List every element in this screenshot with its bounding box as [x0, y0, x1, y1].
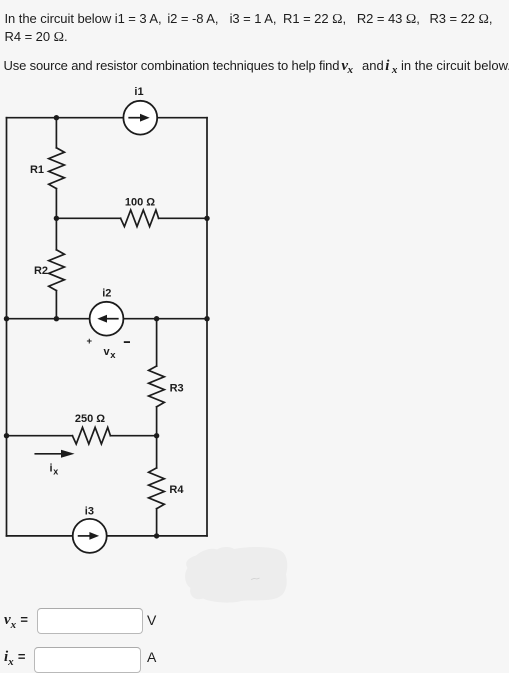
wire R2 bottom lead	[55, 291, 57, 319]
input box vx	[37, 608, 143, 634]
resistor R4	[149, 468, 165, 509]
wire R1-R2 middle	[55, 189, 57, 250]
svg-text:R3: R3	[170, 382, 184, 394]
smudge blob	[185, 547, 287, 603]
node R4 bottom	[154, 533, 159, 538]
node R2 bottom	[54, 316, 59, 321]
svg-text:R1: R1	[30, 164, 44, 176]
wire bottom-left segment	[7, 535, 73, 537]
i3 arrowhead	[89, 532, 99, 540]
svg-text:R2: R2	[34, 265, 48, 277]
node i2 row right edge	[204, 316, 209, 321]
unit A	[147, 649, 156, 665]
node R3 top	[154, 316, 159, 321]
wire R3 top lead	[156, 319, 158, 366]
wire R3-R4 middle	[156, 407, 158, 468]
node 100ohm row right	[204, 216, 209, 221]
i1 arrow	[129, 117, 141, 119]
input box ix	[34, 647, 141, 673]
wire right edge	[206, 118, 208, 536]
answer row ix	[4, 648, 25, 668]
svg-text:x: x	[53, 466, 58, 476]
unit V	[147, 612, 156, 628]
node top of R1 branch	[54, 115, 59, 120]
wire i2 row left	[7, 318, 90, 320]
svg-text:250 Ω: 250 Ω	[75, 413, 105, 425]
i3 arrow	[79, 535, 91, 537]
wire left edge	[6, 118, 8, 536]
node 250ohm row left edge	[4, 433, 9, 438]
wire R4 bottom lead	[156, 509, 158, 536]
answer row vx	[4, 611, 28, 631]
wire bottom-right segment	[107, 535, 207, 537]
svg-text:i3: i3	[85, 506, 94, 518]
wire top-right segment	[157, 117, 207, 119]
i2 arrow	[106, 318, 118, 320]
label minus of vx	[124, 341, 130, 343]
smudge scribble	[251, 578, 260, 580]
resistor 250ohm	[72, 427, 110, 444]
resistor 100ohm	[121, 210, 159, 227]
wire R1 top lead	[55, 118, 57, 148]
svg-text:i: i	[50, 462, 53, 474]
current source i1	[123, 101, 157, 135]
svg-text:i1: i1	[134, 86, 143, 98]
i1 arrowhead	[140, 114, 150, 122]
wire 100ohm row right	[159, 217, 207, 219]
current source i2	[90, 302, 124, 336]
wire 250ohm row left	[7, 435, 73, 437]
problem statement line 1 and 2	[5, 10, 493, 47]
problem statement line 3	[4, 58, 509, 75]
i2 arrowhead	[97, 315, 107, 323]
node 250ohm row right	[154, 433, 159, 438]
svg-text:100 Ω: 100 Ω	[125, 196, 155, 208]
wire 100ohm row left	[56, 217, 120, 219]
svg-text:i2: i2	[102, 288, 111, 300]
resistor R3	[149, 366, 165, 407]
wire 250ohm row right	[110, 435, 156, 437]
svg-text:R4: R4	[169, 484, 184, 496]
ix arrowhead	[61, 450, 75, 458]
wire top-left segment	[7, 117, 124, 119]
current source i3	[73, 519, 107, 553]
node i2 row left edge	[4, 316, 9, 321]
svg-text:x: x	[110, 350, 116, 361]
svg-text:+: +	[87, 336, 93, 347]
node 100ohm row left	[54, 216, 59, 221]
ix arrow line	[35, 453, 62, 455]
resistor R1	[49, 148, 65, 189]
resistor R2	[49, 250, 65, 291]
wire i2 row right	[123, 318, 207, 320]
